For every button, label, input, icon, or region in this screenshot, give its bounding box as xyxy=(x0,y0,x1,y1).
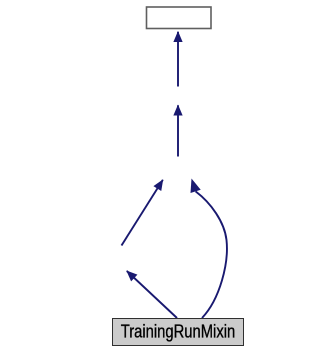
edge E2: invisible node2 -> invisible node1 xyxy=(177,105,179,156)
class box TrainingRunMixin xyxy=(113,319,244,346)
edge E1: invisible node1 -> top box xyxy=(177,32,179,87)
edge E4: TrainingRunMixin -> invisible node2 (right curve) xyxy=(196,191,227,318)
top parent class box (truncated/unlabeled node) xyxy=(147,7,212,29)
edge E3: invisible node3 -> invisible node2 (left diagonal) xyxy=(122,180,163,246)
svg-text:TrainingRunMixin: TrainingRunMixin xyxy=(121,322,236,342)
arrowhead of E4 at node2 xyxy=(191,179,201,194)
edge E6: TrainingRunMixin -> invisible node3 (lower-left diagonal) xyxy=(127,271,177,318)
